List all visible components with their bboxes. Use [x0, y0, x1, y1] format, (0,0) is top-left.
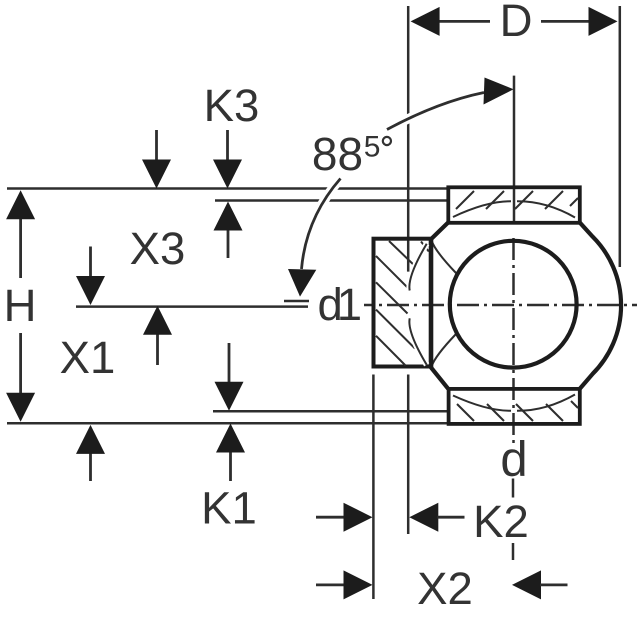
top flange hatch	[456, 191, 578, 209]
dimension K2 tail right	[437, 516, 464, 519]
svg-text:X3: X3	[130, 223, 186, 274]
arrow X1 upper (down, at x90)	[89, 247, 92, 280]
dimension D tail left	[438, 20, 490, 23]
extension line D right (x=620)	[619, 6, 622, 267]
arrow K3 upper (down, at x227)	[226, 130, 229, 163]
weld arc upper left	[432, 241, 457, 274]
dimension K2 tail left	[316, 516, 345, 519]
top flange rect	[448, 187, 580, 223]
extension line K2 right (x=408)	[407, 375, 410, 535]
svg-text:X1: X1	[60, 332, 116, 383]
centerline top socket axis (solid)	[513, 76, 516, 223]
socket end arc upper	[409, 244, 426, 291]
svg-text:X2: X2	[417, 563, 473, 614]
socket hatch	[376, 241, 429, 366]
top flange arc right	[517, 201, 575, 217]
svg-text:K3: K3	[204, 80, 260, 131]
centerline d segment above X2 arrow	[512, 543, 515, 560]
arrow H up	[6, 190, 35, 219]
arrow X3 lower (up, at x157.5)	[156, 332, 159, 365]
dimension X2 tail left	[316, 584, 345, 587]
arrow H down	[6, 393, 35, 422]
extension line X2/K2 left (x=372)	[372, 375, 375, 600]
arrow K2 right (points left)	[409, 503, 438, 532]
arrow D left	[411, 7, 440, 36]
extension line bottom apex L3	[213, 410, 448, 413]
dimension X2 tail right	[540, 584, 568, 587]
dimension D tail right	[541, 20, 590, 23]
extension line bottom face L4	[7, 422, 449, 425]
dimension H line lower	[19, 333, 22, 395]
body outline	[431, 223, 621, 389]
svg-text:d: d	[500, 433, 527, 487]
arrow X3 upper (down, at x156)	[155, 130, 158, 163]
arrow K1 upper (down, at x229)	[228, 343, 231, 385]
arrow X2 right (points left)	[512, 570, 541, 599]
svg-text:K2: K2	[473, 496, 529, 547]
svg-text:88: 88	[312, 128, 363, 180]
extension line top face L1	[7, 187, 448, 190]
svg-text:D: D	[500, 0, 533, 46]
svg-text:K1: K1	[201, 483, 257, 534]
centerline vertical body axis (dash-dot)	[512, 238, 515, 443]
svg-text:H: H	[4, 280, 37, 331]
arrow angle right	[484, 78, 514, 105]
arrow X2 left (points right)	[344, 570, 373, 599]
arrow K2 left (points right)	[344, 503, 373, 532]
bottom flange arc right	[517, 395, 575, 411]
arrow angle down	[288, 269, 316, 297]
short line d1 axis mark	[284, 300, 309, 303]
arrow D right	[589, 7, 618, 36]
main bore circle	[450, 241, 577, 368]
centerline d segment below label	[512, 479, 515, 498]
extension line X dimension boundary (d1 axis)	[76, 305, 308, 308]
extension line D left (x=408)	[407, 6, 410, 272]
degree ring	[383, 137, 391, 145]
angle leader arc to top axis	[387, 93, 484, 130]
angle leader arc to d1 axis	[302, 179, 341, 270]
top flange arc left	[453, 201, 511, 217]
bottom flange arc left	[453, 396, 511, 411]
arrow K3 lower (up, at x228)	[227, 228, 230, 258]
socket rect	[374, 239, 432, 367]
weld arc lower left	[432, 334, 457, 367]
arrow K1 lower (up, at x230.5)	[229, 450, 232, 481]
angle leader white casing	[302, 93, 485, 270]
centerline d1 axis (dash-dot horizontal)	[364, 304, 637, 307]
extension line socket apex L2	[215, 199, 447, 202]
svg-text:d1: d1	[318, 279, 361, 330]
bottom flange hatch	[457, 401, 578, 421]
socket end arc lower	[409, 318, 426, 365]
svg-text:5: 5	[364, 131, 381, 164]
arrow X1 lower (up, at x90)	[89, 451, 92, 481]
bottom flange rect	[449, 389, 580, 424]
dimension H line upper	[19, 216, 22, 278]
